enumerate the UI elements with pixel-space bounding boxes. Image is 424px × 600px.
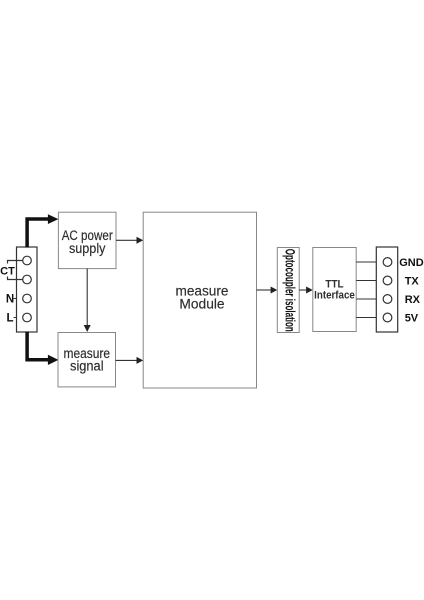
svg-text:signal: signal <box>70 359 104 374</box>
arrowhead into measure signal (top) <box>84 325 91 332</box>
terminal J2 pin GND <box>383 258 392 267</box>
wire: AC power supply to measure Module <box>116 239 137 241</box>
arrowhead into measure Module (top) <box>137 237 144 244</box>
thick wire: connector bottom to measure signal <box>27 332 48 360</box>
wire: TTL to GND pin <box>356 261 376 263</box>
wire: TTL to RX pin <box>356 298 376 300</box>
terminal block J1 (left connector) <box>17 247 38 332</box>
thick wire: connector top to AC power supply <box>27 219 48 248</box>
arrowhead into optocoupler isolation <box>271 287 278 294</box>
svg-text:L: L <box>6 313 13 325</box>
terminal J2 pin RX <box>383 295 392 304</box>
svg-text:supply: supply <box>69 241 106 256</box>
arrowhead into TTL Interface <box>306 287 313 294</box>
wire: measure Module to optocoupler isolation <box>257 289 272 291</box>
box: Optocoupler isolation <box>277 248 299 333</box>
svg-text:RX: RX <box>405 294 421 306</box>
svg-text:5V: 5V <box>405 313 419 325</box>
arrowhead into measure Module (bottom) <box>137 357 144 364</box>
wire: TTL to TX pin <box>356 280 376 282</box>
terminal J1 pin 4 <box>23 313 32 322</box>
box: TTL Interface <box>313 248 356 332</box>
CT bracket wire <box>8 261 23 280</box>
terminal J1 pin 3 <box>23 294 32 303</box>
svg-text:GND: GND <box>399 257 424 269</box>
wire: measure signal to measure Module <box>116 359 138 361</box>
label CT <box>0 264 15 277</box>
box: measure Module <box>143 212 256 388</box>
svg-text:Optocoupler isolation: Optocoupler isolation <box>282 249 298 332</box>
arrowhead into measure signal <box>48 355 59 365</box>
pin tick L <box>14 317 17 319</box>
wire: TTL to 5V pin <box>356 317 376 319</box>
box: AC power supply <box>58 212 116 268</box>
svg-text:N: N <box>6 294 14 306</box>
box: measure signal <box>58 333 116 387</box>
terminal block J2 (right connector) <box>376 247 397 332</box>
terminal J2 pin TX <box>383 276 392 285</box>
arrowhead into AC power supply <box>48 214 59 224</box>
svg-text:TX: TX <box>405 276 420 288</box>
pin tick N <box>14 298 17 300</box>
terminal J2 pin 5V <box>383 313 392 322</box>
svg-text:CT: CT <box>0 266 15 278</box>
wire: optocoupler isolation to TTL Interface <box>299 289 306 291</box>
svg-text:Module: Module <box>179 297 224 313</box>
terminal J1 pin 2 <box>23 275 32 284</box>
svg-text:Interface: Interface <box>314 289 355 301</box>
terminal J1 pin 1 <box>23 256 32 265</box>
wire: AC power supply down to measure signal <box>86 269 88 326</box>
